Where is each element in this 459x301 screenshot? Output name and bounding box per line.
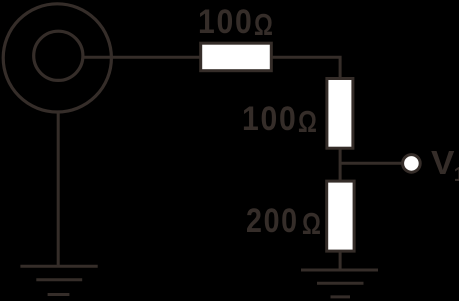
source V inner circle [34, 31, 83, 80]
resistor R3 200ohm vertical [327, 181, 354, 251]
left ground bar 1 [20, 265, 97, 268]
label V of node V1 [431, 147, 454, 181]
wire R2 to R3 [339, 149, 342, 181]
label subscript 1 of node V1 [454, 165, 459, 185]
label ohm sign for R1 [254, 9, 273, 40]
wire R1 to corner down to R2 [273, 57, 341, 78]
source V outer circle [3, 4, 111, 112]
wire R3 to right ground [339, 251, 342, 270]
right ground bar 3 [331, 295, 351, 298]
left ground bar 2 [36, 278, 82, 281]
label ohm sign for R2 [298, 106, 317, 137]
wire junction to node V1 [340, 162, 402, 165]
label 100 digits for R2 [242, 102, 298, 137]
label ohm sign for R3 [302, 208, 321, 239]
left ground bar 3 [48, 293, 70, 296]
resistor R2 100ohm vertical [327, 79, 353, 149]
node V1 terminal circle [403, 155, 421, 173]
label 100 digits for R1 [198, 5, 254, 40]
wire source to left ground [57, 112, 60, 266]
right ground bar 1 [301, 269, 378, 272]
wire source to R1 [83, 56, 200, 59]
resistor R1 100ohm horizontal [201, 43, 272, 70]
label 200 digits for R3 [246, 204, 299, 239]
right ground bar 2 [317, 282, 364, 285]
